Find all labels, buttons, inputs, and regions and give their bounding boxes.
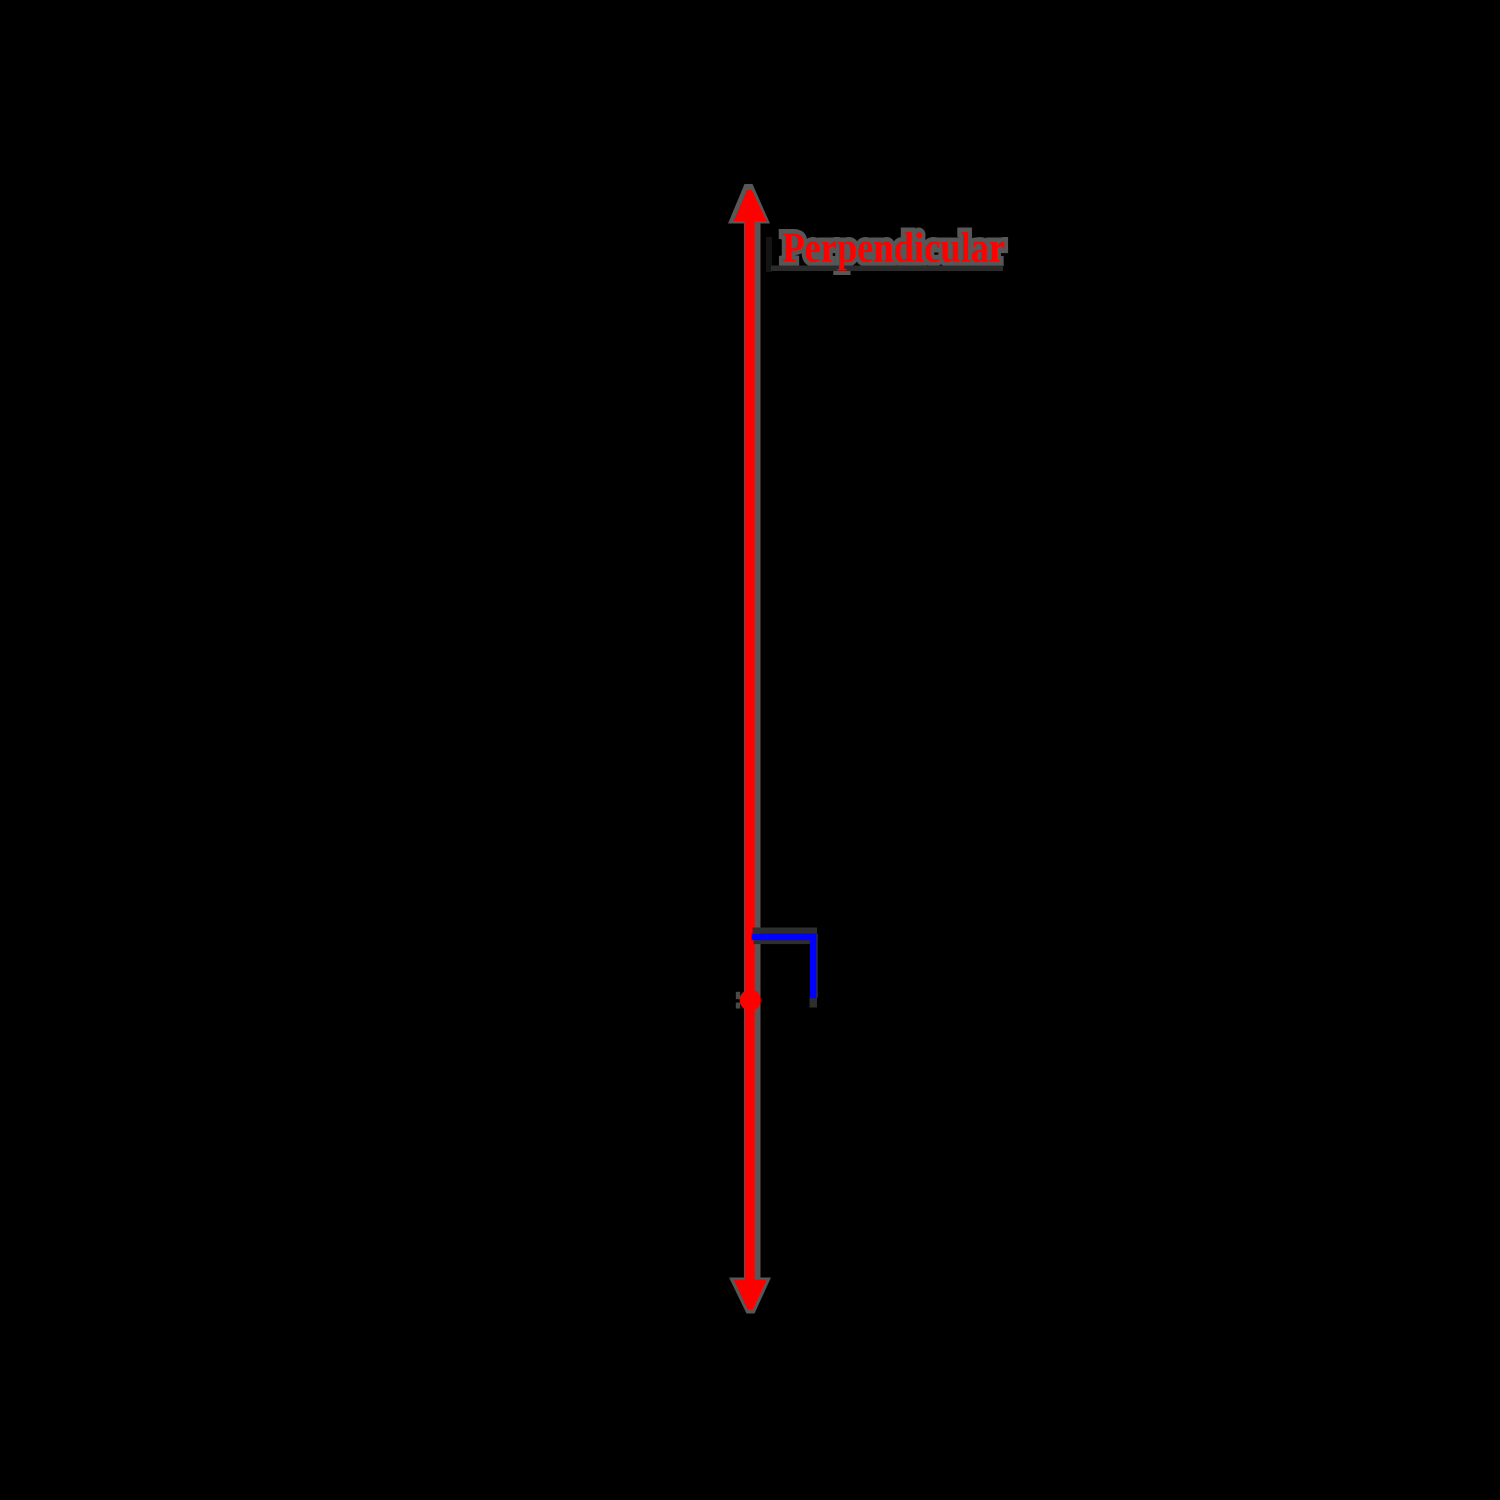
- wire: dark shadow band below label text: [771, 266, 1003, 272]
- wire: gray shadow of bottom arrowhead: [729, 1278, 771, 1314]
- node: faint dark patch right of shaft below top arrowhead: [766, 237, 772, 272]
- wire: red perpendicular line shaft: [745, 205, 755, 1295]
- wire: dark shadow band below blue right-angle vertical arm: [810, 998, 818, 1008]
- wire: gray shadow of vertical red line shaft: [744, 208, 761, 1296]
- wire: blue right-angle mark vertical arm: [810, 934, 816, 998]
- wire: gray shadow of top arrowhead: [728, 184, 770, 224]
- wire: top arrowhead of red line: [734, 190, 767, 221]
- node: gray shadow ticks left of red point: [736, 992, 740, 999]
- wire: thin dark shadow right of blue vertical arm: [816, 934, 818, 998]
- svg-text:Perpendicular: Perpendicular: [782, 226, 1005, 272]
- node: red point on the line: [740, 989, 761, 1010]
- wire: bottom arrowhead of red line: [734, 1280, 767, 1310]
- wire: blue right-angle mark horizontal arm: [752, 934, 817, 940]
- wire: dark shadow band above blue right-angle horizontal arm: [753, 928, 818, 934]
- wire: dark shadow band below blue right-angle horizontal arm: [754, 940, 811, 944]
